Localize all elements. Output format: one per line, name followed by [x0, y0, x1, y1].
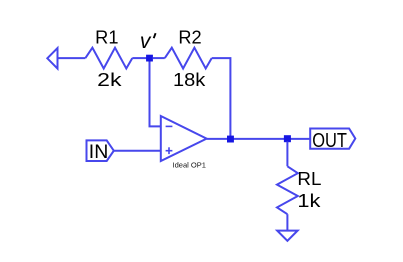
node label v' prime mark [154, 33, 156, 38]
ground [277, 231, 297, 241]
svg-text:2k: 2k [97, 69, 122, 90]
wire IN to op-amp non-inverting input [114, 150, 161, 152]
wire junction to RL [286, 142, 288, 167]
svg-text:Ideal OP1: Ideal OP1 [173, 160, 207, 169]
svg-text:R2: R2 [178, 27, 201, 47]
wire node v' to R2 [153, 57, 165, 59]
port OUT [310, 129, 355, 149]
wire R1 to node v' [132, 57, 147, 59]
svg-text:18k: 18k [173, 69, 206, 90]
svg-text:1k: 1k [297, 190, 321, 211]
svg-text:IN: IN [89, 142, 109, 163]
svg-text:R1: R1 [95, 27, 118, 47]
wire op-amp output to OUT [207, 138, 311, 140]
node v' junction [146, 55, 153, 62]
svg-text:RL: RL [297, 168, 321, 189]
resistor RL [277, 166, 298, 214]
wire RL to ground [286, 214, 288, 230]
resistor R2 [165, 48, 212, 69]
input arrow port (left) [47, 48, 57, 69]
port IN [87, 140, 114, 161]
svg-text:OUT: OUT [312, 130, 347, 152]
wire node v' to op-amp inverting input [150, 62, 161, 127]
junction RL tap [284, 135, 291, 142]
svg-text:v: v [140, 30, 152, 53]
wire arrow to R1 [58, 57, 86, 59]
op-amp plus pin mark [166, 150, 173, 152]
op-amp U1 [161, 116, 207, 161]
resistor R1 [85, 48, 132, 69]
wire R2 to feedback drop [212, 58, 231, 139]
junction output node [227, 136, 234, 143]
op-amp minus pin mark [166, 125, 173, 127]
